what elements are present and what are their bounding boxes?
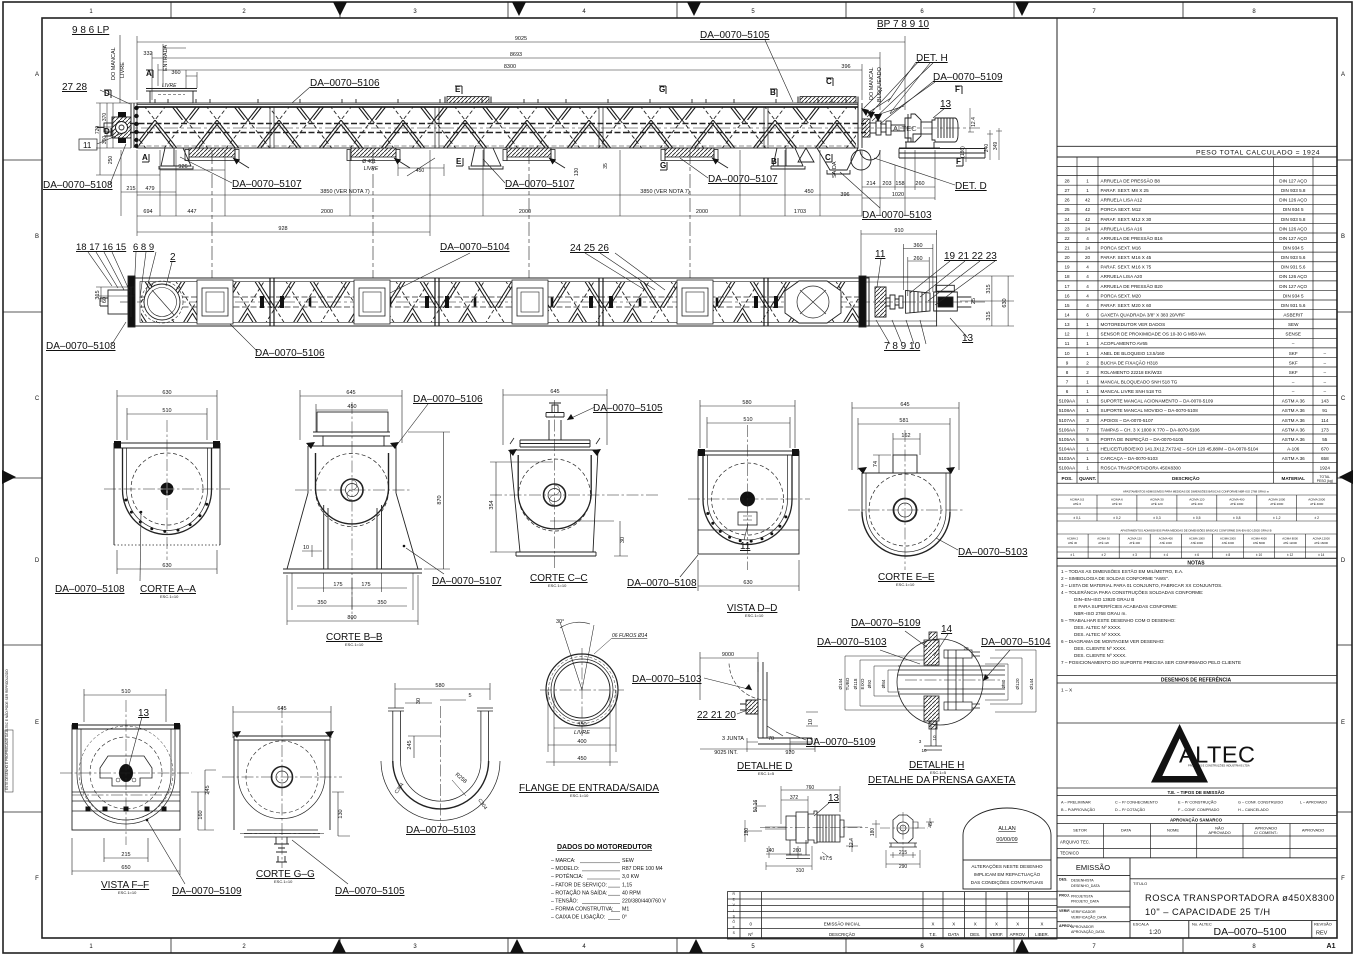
svg-text:3850 (VER NOTA 7): 3850 (VER NOTA 7) [640,189,690,195]
right column divider [1056,18,1058,938]
svg-text:18 17 16 15: 18 17 16 15 [76,242,126,253]
left shaft end plan [100,276,135,327]
svg-text:260: 260 [793,848,802,854]
svg-text:HELICE/TUBO/EIXO 141,3X12,7X72: HELICE/TUBO/EIXO 141,3X12,7X7242 – SCH 1… [1101,446,1259,451]
svg-text:ENTRADA: ENTRADA [163,45,169,72]
svg-text:DIN 931 5.6: DIN 931 5.6 [1281,265,1306,270]
svg-text:–: – [1324,370,1327,375]
svg-text:DES. CLIENTE Nº XXXX.: DES. CLIENTE Nº XXXX. [1074,646,1126,651]
svg-text:DET. D: DET. D [955,181,987,192]
svg-text:372: 372 [790,795,799,801]
svg-text:REVISÃO: REVISÃO [1314,922,1332,927]
svg-text:ACIMA 400: ACIMA 400 [1159,536,1174,540]
svg-text:PROJETISTA: PROJETISTA [1071,894,1094,898]
svg-text:24: 24 [1064,217,1070,222]
svg-text:SETOR: SETOR [1073,828,1087,833]
svg-text:ESC.1=10: ESC.1=10 [345,642,364,647]
svg-text:ACIMA 4000: ACIMA 4000 [1251,536,1267,540]
svg-text:215: 215 [121,852,130,858]
plan center dashed lines [120,297,985,307]
plan labels below [46,333,974,359]
svg-text:–: – [1292,341,1295,346]
svg-text:13: 13 [138,708,150,719]
svg-text:ESC.1=10: ESC.1=10 [160,594,179,599]
left end plate and bearing (mancal livre) [97,103,134,148]
svg-text:C: C [35,396,40,402]
svg-text:370: 370 [102,113,108,122]
drive end: gland, gearbox, motor [858,103,985,160]
svg-text:1: 1 [1086,408,1089,413]
parts list table [1057,157,1337,483]
screw flights zigzag [139,108,856,148]
svg-text:DES. ALTEC Nº XXXX.: DES. ALTEC Nº XXXX. [1074,632,1121,637]
svg-text:26: 26 [1064,198,1070,203]
svg-text:27: 27 [1064,188,1070,193]
svg-text:ARRUELA LISA A16: ARRUELA LISA A16 [1101,226,1143,231]
svg-text:SUPORTE MANCAL ACIONAMENTO – D: SUPORTE MANCAL ACIONAMENTO – DA-0070-510… [1101,399,1214,404]
svg-text:– TENSÃO:: – TENSÃO: [551,898,578,905]
svg-text:Õ: Õ [732,919,735,924]
svg-text:215: 215 [899,850,908,856]
svg-text:EIXO: EIXO [860,678,865,689]
svg-text:DO MANCAL: DO MANCAL [869,67,875,100]
svg-text:17: 17 [1064,284,1070,289]
svg-text:11: 11 [83,141,92,150]
svg-text:ESC.1=10: ESC.1=10 [118,890,137,895]
svg-text:APROVAÇÃO_DATA: APROVAÇÃO_DATA [1071,929,1105,934]
svg-text:± 4: ± 4 [1164,553,1169,557]
svg-text:5104AA: 5104AA [1059,446,1076,451]
svg-text:± 0,8: ± 0,8 [1233,516,1241,520]
svg-text:5105AA: 5105AA [1059,437,1076,442]
svg-text:1 – X: 1 – X [1061,688,1073,694]
right octagon access [785,281,841,323]
svg-text:DO MANCAL: DO MANCAL [111,47,117,80]
svg-text:645: 645 [900,402,909,408]
svg-text:1: 1 [1086,341,1089,346]
svg-text:APOIOS – DA-0070-5107: APOIOS – DA-0070-5107 [1101,418,1154,423]
svg-text:PARAF. SEXT. M12 X 30: PARAF. SEXT. M12 X 30 [1101,217,1152,222]
svg-text:3 JUNTA: 3 JUNTA [722,736,744,742]
svg-text:10: 10 [808,719,814,725]
svg-text:3850 (VER NOTA 7): 3850 (VER NOTA 7) [320,189,370,195]
svg-text:1:20: 1:20 [1149,930,1161,936]
svg-text:ACOPLAMENTO AV65: ACOPLAMENTO AV65 [1101,341,1149,346]
svg-text:4 – TOLERÂNCIA PARA CONSTRUÇ: 4 – TOLERÂNCIA PARA CONSTRUÇÕES SOLDADAS… [1061,589,1203,595]
svg-text:DES. ALTEC Nº XXXX.: DES. ALTEC Nº XXXX. [1074,625,1121,630]
svg-text:R87 DRE 100 M4: R87 DRE 100 M4 [622,866,663,872]
svg-text:00/00/09: 00/00/09 [996,837,1017,843]
svg-text:45: 45 [928,822,934,828]
svg-text:630: 630 [162,390,171,396]
svg-text:42: 42 [1085,198,1091,203]
svg-text:16: 16 [1064,293,1070,298]
svg-text:13: 13 [1064,322,1070,327]
svg-text:ACIMA 12000: ACIMA 12000 [1313,536,1331,540]
svg-text:G – CONF. CONSTRUIDO: G – CONF. CONSTRUIDO [1238,801,1283,805]
svg-text:1: 1 [1086,379,1089,384]
svg-text:1: 1 [1086,456,1089,461]
svg-text:G: G [660,161,666,170]
svg-text:450: 450 [416,168,425,174]
svg-text:12.4: 12.4 [971,117,977,127]
svg-text:220/380/440/760 V: 220/380/440/760 V [622,899,666,905]
svg-text:630: 630 [1002,298,1008,307]
altec logo block [1057,722,1337,724]
svg-text:ATÉ 8000: ATÉ 8000 [1253,540,1266,545]
svg-text:315: 315 [986,311,992,320]
svg-text:ASTM A 36: ASTM A 36 [1282,408,1305,413]
svg-text:A – PRELIMINAR: A – PRELIMINAR [1061,801,1091,805]
svg-text:–: – [1324,360,1327,365]
svg-text:SENSE: SENSE [1285,332,1301,337]
svg-text:720: 720 [95,126,101,135]
svg-text:5: 5 [468,693,471,699]
panel joint verticals on side view [270,107,768,148]
svg-text:IMPLICAM EM REPACTUAÇÃO: IMPLICAM EM REPACTUAÇÃO [974,871,1041,877]
svg-text:DETALHE DA PRENSA GAXETA: DETALHE DA PRENSA GAXETA [868,775,1016,786]
peso total header [1057,146,1337,157]
svg-text:250: 250 [108,156,114,165]
svg-text:DIN 934 5: DIN 934 5 [1283,245,1304,250]
svg-text:360: 360 [171,70,180,76]
svg-text:DA–0070–5107: DA–0070–5107 [432,576,502,587]
svg-text:0°: 0° [622,915,627,921]
svg-text:162: 162 [901,433,910,439]
svg-text:91: 91 [1322,408,1328,413]
svg-text:Nº: Nº [748,932,753,937]
svg-text:(186): (186) [960,146,966,158]
svg-text:± 12: ± 12 [1287,553,1293,557]
svg-text:ATÉ 4000: ATÉ 4000 [1222,540,1235,545]
svg-text:DA–0070–5100: DA–0070–5100 [1214,926,1287,938]
svg-text:ESC.1=10: ESC.1=10 [745,613,764,618]
svg-text:ROSCA TRANSPORTADORA ø450X8300: ROSCA TRANSPORTADORA ø450X8300 [1145,893,1335,903]
svg-text:130: 130 [338,809,344,818]
svg-text:E – P/ CONSTRUÇÃO: E – P/ CONSTRUÇÃO [1178,800,1216,805]
svg-text:11: 11 [740,541,751,552]
svg-text:Ø84: Ø84 [881,679,886,688]
svg-text:ARRUELA DE PRESSÃO B16: ARRUELA DE PRESSÃO B16 [1101,235,1163,241]
svg-text:ANEL DE BLOQUEIO 13.5/160: ANEL DE BLOQUEIO 13.5/160 [1101,351,1165,356]
svg-text:2000: 2000 [321,209,333,215]
svg-text:D – P/ COTAÇÃO: D – P/ COTAÇÃO [1115,807,1145,812]
plan dims [96,230,1014,326]
svg-text:MANCAL LIVRE SNH 518 TG: MANCAL LIVRE SNH 518 TG [1101,389,1162,394]
svg-text:630: 630 [743,580,752,586]
svg-text:C: C [1341,396,1346,402]
svg-text:PESO (kg): PESO (kg) [1317,479,1333,483]
svg-text:T.E.: T.E. [929,932,937,937]
svg-text:22 21 20: 22 21 20 [697,710,736,721]
svg-text:E PARA SUPERFÍCIES ACABADAS CO: E PARA SUPERFÍCIES ACABADAS CONFORME: [1074,603,1178,609]
svg-text:4: 4 [1086,293,1089,298]
svg-text:–: – [1324,351,1327,356]
svg-text:PARAF. SEXT. M16 X 75: PARAF. SEXT. M16 X 75 [1101,265,1152,270]
svg-text:DES. CLIENTE Nº XXXX.: DES. CLIENTE Nº XXXX. [1074,653,1126,658]
svg-text:– FORMA CONSTRUTIVA:: – FORMA CONSTRUTIVA: [551,907,613,913]
svg-text:332: 332 [143,51,152,57]
labels top left [62,25,110,93]
svg-text:NOTAS: NOTAS [1187,561,1205,567]
svg-text:1,15: 1,15 [622,882,632,888]
svg-text:LIVRE: LIVRE [364,166,379,172]
svg-text:DA–0070–5103: DA–0070–5103 [817,637,887,648]
svg-text:70: 70 [768,736,774,742]
svg-text:1: 1 [1086,188,1089,193]
svg-text:650: 650 [121,865,130,871]
svg-text:SEW: SEW [1288,322,1299,327]
svg-text:Ø144: Ø144 [838,678,843,690]
svg-text:510: 510 [121,689,130,695]
svg-text:B – P/APROVAÇÃO: B – P/APROVAÇÃO [1061,807,1095,812]
svg-text:BLOQUEADO: BLOQUEADO [877,66,883,102]
svg-text:PARAF. SEXT. M16 X 45: PARAF. SEXT. M16 X 45 [1101,255,1152,260]
svg-text:214: 214 [866,181,875,187]
svg-text:DESCRIÇÃO: DESCRIÇÃO [829,932,856,937]
svg-text:25: 25 [971,298,977,304]
svg-text:ATÉ 30: ATÉ 30 [1068,540,1078,545]
svg-text:870: 870 [437,495,443,504]
svg-text:PARAF. SEXT. M8 X 25: PARAF. SEXT. M8 X 25 [1101,188,1150,193]
svg-text:ESC.1=5: ESC.1=5 [758,771,775,776]
svg-text:6: 6 [1086,312,1089,317]
svg-text:± 10: ± 10 [1256,553,1262,557]
svg-text:ATÉ 400: ATÉ 400 [1191,501,1203,506]
svg-text:TUBO: TUBO [845,677,850,690]
svg-text:1: 1 [1086,332,1089,337]
svg-text:X: X [952,922,955,927]
svg-text:ATÉ 16000: ATÉ 16000 [1314,540,1328,545]
svg-text:450: 450 [577,756,586,762]
svg-text:ASTM A 36: ASTM A 36 [1282,456,1305,461]
svg-text:ASTM A 36: ASTM A 36 [1282,437,1305,442]
svg-text:B: B [1341,234,1345,240]
svg-text:10: 10 [303,545,309,551]
svg-text:Ø80: Ø80 [1001,679,1006,688]
svg-text:± 2: ± 2 [1101,553,1106,557]
dimension rows below top view [121,150,935,236]
svg-text:X: X [1016,922,1019,927]
saida chute [798,148,871,174]
svg-text:A: A [1341,72,1345,78]
svg-text:2: 2 [170,252,176,263]
svg-text:9: 9 [1066,360,1069,365]
svg-text:1: 1 [1086,446,1089,451]
svg-text:DAS CONDIÇÕES CONTRATUAIS: DAS CONDIÇÕES CONTRATUAIS [971,879,1043,885]
svg-text:DESENHISTA: DESENHISTA [1071,879,1094,883]
svg-text:DIN 126 AÇO: DIN 126 AÇO [1279,226,1307,231]
svg-text:A: A [142,153,148,162]
svg-text:SKF: SKF [1289,360,1298,365]
svg-text:10: 10 [921,748,927,753]
svg-text:581: 581 [899,418,908,424]
svg-text:PORCA SEXT. M12: PORCA SEXT. M12 [1101,207,1142,212]
svg-text:4: 4 [1086,265,1089,270]
svg-text:SAIDA: SAIDA [832,161,838,178]
svg-text:–: – [1292,379,1295,384]
svg-text:30: 30 [620,537,626,543]
svg-text:450: 450 [804,189,813,195]
svg-text:APROV.: APROV. [1010,932,1026,937]
svg-text:2: 2 [1086,370,1089,375]
svg-text:215: 215 [126,186,135,192]
svg-text:ARQUIVO TEC.: ARQUIVO TEC. [1060,840,1090,845]
svg-text:DIN 126 AÇO: DIN 126 AÇO [1279,274,1307,279]
svg-text:74: 74 [873,461,879,467]
svg-text:DA–0070–5109: DA–0070–5109 [172,886,242,897]
svg-text:4: 4 [1086,303,1089,308]
svg-text:SKF: SKF [1289,370,1298,375]
svg-text:ACIMA 1000: ACIMA 1000 [1189,536,1205,540]
svg-text:C – P/ CONHECIMENTO: C – P/ CONHECIMENTO [1115,801,1158,805]
centering triangles [333,2,347,16]
svg-text:ASTM A 36: ASTM A 36 [1282,399,1305,404]
svg-text:140: 140 [766,848,775,854]
svg-text:DA–0070–5106: DA–0070–5106 [255,348,325,359]
svg-text:PARAF. SEXT. M20 X 60: PARAF. SEXT. M20 X 60 [1101,303,1152,308]
svg-text:± 0,1: ± 0,1 [1073,516,1081,520]
svg-text:#17.5: #17.5 [820,856,833,862]
svg-text:920: 920 [785,750,794,756]
svg-text:245: 245 [205,785,211,794]
svg-text:B: B [771,157,777,166]
svg-text:A1: A1 [1327,943,1336,950]
svg-text:ATÉ 4000: ATÉ 4000 [1310,501,1323,506]
svg-text:42: 42 [1085,207,1091,212]
svg-text:4: 4 [1086,274,1089,279]
svg-text:DIN 933 5.8: DIN 933 5.8 [1281,217,1306,222]
center tube dashed lines [118,124,980,147]
top rail bolt ticks [155,99,846,103]
svg-text:23: 23 [1064,226,1070,231]
svg-text:TAMPAS – CH. 3 X 1000 X 770 –: TAMPAS – CH. 3 X 1000 X 770 – DA-0070-51… [1101,427,1201,432]
svg-text:245: 245 [407,740,413,749]
svg-text:X: X [974,922,977,927]
svg-text:6 – DIAGRAMA DE MONTAGEM VER: 6 – DIAGRAMA DE MONTAGEM VER DESENHO: [1061,639,1165,644]
svg-text:D: D [104,127,110,136]
chain centerlines connecting views [212,150,690,278]
svg-text:18: 18 [1064,274,1070,279]
svg-text:± 1: ± 1 [1070,553,1075,557]
svg-text:350: 350 [377,600,386,606]
trough body [137,103,858,148]
svg-text:ATÉ 6: ATÉ 6 [1073,501,1081,506]
svg-text:396: 396 [840,192,849,198]
svg-text:28: 28 [1064,179,1070,184]
svg-text:60: 60 [102,297,108,303]
svg-text:7: 7 [1066,379,1069,384]
svg-text:No. ALTEC: No. ALTEC [1192,922,1212,927]
svg-text:21: 21 [1064,245,1070,250]
svg-text:DIN 127 AÇO: DIN 127 AÇO [1279,284,1307,289]
svg-text:± 0,3: ± 0,3 [1153,516,1161,520]
svg-text:ALTERAÇÕES NESTE DESENHO: ALTERAÇÕES NESTE DESENHO [971,863,1043,869]
svg-text:LIVRE: LIVRE [574,730,590,736]
svg-text:BP 7 8 9 10: BP 7 8 9 10 [877,19,930,30]
svg-text:TITULO: TITULO [1133,881,1147,886]
svg-text:5106AA: 5106AA [1059,427,1076,432]
svg-text:396: 396 [841,64,850,70]
svg-text:APROVAÇÃO SAMARCO: APROVAÇÃO SAMARCO [1170,818,1223,823]
T.E. tipos de emissao [1057,788,1337,796]
svg-text:ATÉ 120: ATÉ 120 [1151,501,1163,506]
svg-text:VERIF.: VERIF. [990,932,1004,937]
svg-text:SKF: SKF [1289,351,1298,356]
svg-text:PORCA SEXT. M16: PORCA SEXT. M16 [1101,245,1142,250]
svg-text:SENSOR DE PROXIMIDADE OS 10-30: SENSOR DE PROXIMIDADE OS 10-30 G M50-WA [1101,332,1207,337]
notas block [1057,559,1337,567]
svg-text:Ø92: Ø92 [867,679,872,688]
svg-text:– CAIXA DE LIGAÇÃO:: – CAIXA DE LIGAÇÃO: [551,914,605,921]
svg-text:AFASTAMENTOS ADMISSIVEIS PARA: AFASTAMENTOS ADMISSIVEIS PARA MEDIDAS DE… [1121,527,1272,532]
svg-text:24 25 26: 24 25 26 [570,243,609,254]
svg-text:H – CANCELADO: H – CANCELADO [1238,808,1269,812]
svg-text:A-106: A-106 [1287,446,1300,451]
svg-text:DA–0070–5106: DA–0070–5106 [413,394,483,405]
svg-text:240: 240 [984,144,990,153]
svg-text:15: 15 [1064,303,1070,308]
leader fan to gland [864,60,935,124]
flange joint dividers [270,278,768,326]
svg-text:3 – LISTA DE MATERIAL PARA 0: 3 – LISTA DE MATERIAL PARA 01 CONJUNTO, … [1061,583,1223,588]
entrada inlet box [146,89,197,104]
svg-text:315: 315 [95,290,101,299]
svg-text:DATA: DATA [1121,828,1131,833]
svg-text:– MODELO:: – MODELO: [551,866,579,872]
svg-text:APROVADO: APROVADO [1208,830,1230,835]
svg-text:19: 19 [1064,265,1070,270]
svg-text:ATÉ 1000: ATÉ 1000 [1160,540,1173,545]
svg-text:VERIFICADOR: VERIFICADOR [1071,910,1096,914]
svg-text:DA–0070–5108: DA–0070–5108 [46,341,116,352]
svg-text:NBR–ISO 2768 GRAU m.: NBR–ISO 2768 GRAU m. [1074,611,1127,616]
svg-text:12.4: 12.4 [849,838,855,848]
svg-text:400: 400 [577,739,586,745]
svg-text:DA–0070–5108: DA–0070–5108 [43,180,113,191]
svg-text:ACIMA 6: ACIMA 6 [1111,497,1123,501]
svg-text:D: D [1341,558,1346,564]
top view dimensions above [137,36,905,110]
svg-text:MANCAL BLOQUEADO SNH 518 TG: MANCAL BLOQUEADO SNH 518 TG [1101,379,1178,384]
svg-text:11: 11 [1065,341,1070,346]
svg-text:24: 24 [1085,226,1091,231]
left flange circle [141,281,183,323]
svg-text:315: 315 [986,284,992,293]
svg-text:9000: 9000 [722,652,734,658]
misc mid dims [362,117,999,176]
svg-text:ACIMA 2: ACIMA 2 [1067,536,1078,540]
svg-text:1: 1 [1086,389,1089,394]
svg-text:ATÉ 30: ATÉ 30 [1112,501,1122,506]
svg-text:800: 800 [347,615,356,621]
svg-text:SEW: SEW [622,858,634,864]
ALTEC logo triangle [1151,724,1208,783]
svg-text:APROVADOR: APROVADOR [1071,925,1094,929]
svg-text:ASBERIT: ASBERIT [1283,312,1303,317]
svg-text:14: 14 [1064,312,1070,317]
svg-text:8693: 8693 [510,52,522,58]
svg-text:DA–0070–5105: DA–0070–5105 [335,886,405,897]
svg-text:ROLAMENTO 22218 EK/W33: ROLAMENTO 22218 EK/W33 [1101,370,1163,375]
svg-text:5: 5 [1086,437,1089,442]
svg-text:13: 13 [962,333,974,344]
svg-text:510: 510 [743,417,752,423]
svg-text:24: 24 [1085,245,1091,250]
svg-text:6: 6 [1066,389,1069,394]
svg-text:510: 510 [162,408,171,414]
svg-text:3,0 KW: 3,0 KW [622,874,639,880]
